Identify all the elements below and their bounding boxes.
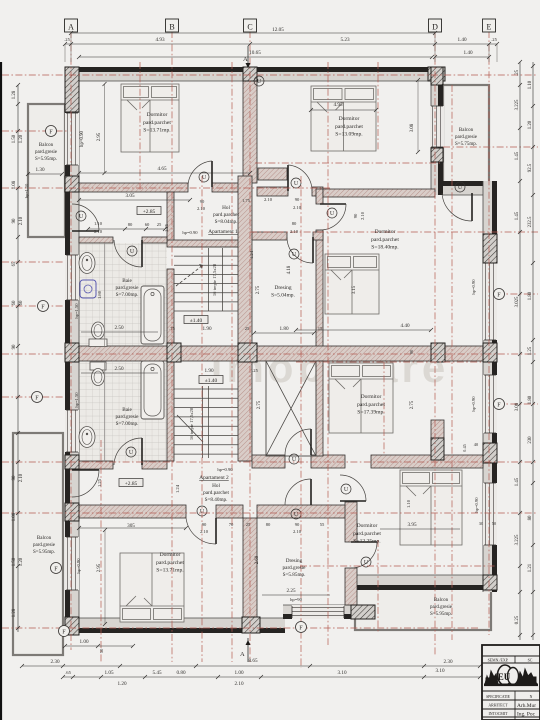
axis horizontal y566: [300, 565, 497, 567]
axis horizontal y294: [497, 293, 538, 295]
column right-upper top: [431, 67, 443, 85]
svg-text:F: F: [497, 291, 501, 298]
svg-text:80: 80: [292, 221, 297, 226]
svg-text:5.45: 5.45: [152, 670, 161, 676]
svg-text:S=5.95mp.: S=5.95mp.: [33, 550, 55, 555]
level box +2.85 apt1: [137, 207, 161, 215]
dim 4.95 bedroom2: [311, 109, 376, 111]
stair right wall: [238, 176, 252, 343]
level box +1.40 stairs upper: [184, 316, 208, 324]
axis horizontal y462: [2, 461, 538, 463]
stairwell top wall: [167, 240, 239, 247]
svg-text:±1.40: ±1.40: [205, 378, 218, 384]
dressing top wall: [251, 232, 287, 240]
svg-text:4.40: 4.40: [400, 323, 409, 329]
window left wall bath1: [65, 255, 79, 300]
column stairright mid: [238, 343, 257, 362]
column right y443: [483, 443, 497, 463]
svg-text:90: 90: [202, 522, 207, 527]
hol1 top wall right segment: [257, 187, 288, 196]
svg-text:hp=0.90: hp=0.90: [182, 230, 198, 235]
dim col right inner: [519, 62, 521, 640]
svg-text:90: 90: [295, 522, 300, 527]
door circle top wall: [254, 76, 264, 86]
axis horizontal y75: [2, 74, 538, 76]
window left wall bedroom1: [65, 113, 79, 165]
svg-text:S=5.85mp.: S=5.85mp.: [283, 572, 306, 578]
window right wall lower: [483, 483, 497, 545]
svg-text:3.10: 3.10: [435, 668, 444, 674]
svg-text:U: U: [364, 560, 369, 566]
column left y176: [65, 176, 79, 192]
svg-text:2.10: 2.10: [264, 197, 273, 202]
svg-text:pard.gresie: pard.gresie: [116, 285, 140, 291]
svg-text:F: F: [54, 565, 58, 572]
svg-text:Apartament 1: Apartament 1: [208, 229, 238, 235]
svg-text:Dormitor: Dormitor: [147, 112, 168, 118]
grid circle F: [296, 622, 307, 633]
svg-text:hp=1.50: hp=1.50: [74, 392, 79, 408]
hol2 top wall segment c: [371, 455, 483, 468]
svg-text:Dormitor: Dormitor: [160, 552, 181, 558]
dim 2.50 bath1: [81, 331, 158, 333]
door circle U9: [197, 506, 207, 516]
svg-text:Dormitor: Dormitor: [339, 116, 360, 122]
svg-text:F: F: [41, 303, 45, 310]
svg-text:B: B: [169, 23, 174, 32]
svg-text:1.21: 1.21: [528, 563, 533, 572]
axis horizontal y362: [296, 361, 483, 363]
bath2 fixture strip line: [104, 362, 106, 461]
svg-text:Baie: Baie: [122, 407, 132, 413]
exterior right wall upper x431: [431, 67, 443, 195]
axis horizontal y147: [443, 146, 538, 148]
svg-text:2.30: 2.30: [443, 659, 452, 665]
svg-text:U: U: [257, 79, 262, 85]
door circle U14: [361, 557, 371, 567]
svg-text:E: E: [487, 23, 492, 32]
svg-text:2.10: 2.10: [360, 211, 365, 220]
column bottom x351: [351, 605, 375, 619]
svg-text:hp=0.90: hp=0.90: [217, 467, 233, 472]
svg-text:1.20: 1.20: [528, 120, 533, 129]
axis horizontal y306: [2, 305, 65, 307]
svg-text:pard.parchet: pard.parchet: [353, 531, 381, 537]
stair left wall lower: [167, 361, 174, 461]
dim row top 2: [65, 43, 497, 45]
axis horizontal y397: [2, 396, 65, 398]
svg-text:S=12.25mp.: S=12.25mp.: [353, 539, 381, 545]
svg-text:0.25: 0.25: [515, 615, 520, 624]
svg-text:U: U: [79, 214, 84, 220]
svg-text:S=7.00mp.: S=7.00mp.: [116, 421, 139, 427]
door bedroom5: [340, 500, 366, 502]
svg-text:1.30: 1.30: [35, 167, 44, 173]
svg-text:1.20: 1.20: [19, 134, 24, 143]
axis horizontal y404: [497, 403, 538, 405]
svg-text:A: A: [240, 651, 245, 658]
door balcony bottom-left: [72, 469, 99, 471]
hol2 bottom wall segment b: [216, 505, 243, 518]
svg-text:Hol: Hol: [222, 205, 230, 211]
svg-text:2.50: 2.50: [114, 366, 123, 372]
hol2 top wall segment b: [311, 455, 345, 468]
svg-text:2.75: 2.75: [257, 400, 262, 409]
svg-text:F: F: [49, 128, 53, 135]
dim 1.80 dressing: [254, 332, 314, 334]
svg-text:.25: .25: [252, 368, 258, 373]
door dorm3: [320, 203, 346, 205]
svg-text:2.75: 2.75: [410, 400, 415, 409]
svg-text:2.25: 2.25: [286, 588, 295, 594]
svg-text:1.25: 1.25: [97, 478, 102, 487]
svg-text:90: 90: [12, 218, 17, 223]
svg-text:25: 25: [245, 326, 250, 331]
dorm3 left wall x316 lower / dressing right wall: [316, 230, 323, 361]
door dressing: [312, 237, 314, 263]
door dressing2: [310, 479, 312, 505]
svg-text:65: 65: [12, 261, 17, 266]
axis E vertical: [488, 31, 490, 635]
svg-text:N: N: [530, 695, 533, 699]
svg-text:S=5.75mp.: S=5.75mp.: [455, 142, 477, 147]
door bath2: [141, 438, 143, 465]
svg-text:1.28: 1.28: [12, 90, 17, 99]
svg-text:pard.parchet: pard.parchet: [143, 120, 171, 126]
svg-text:EU: EU: [498, 672, 511, 682]
axis horizontal y188: [2, 187, 330, 189]
column right y343: [483, 343, 497, 362]
svg-text:Dresing: Dresing: [274, 285, 291, 291]
door circle U6: [76, 211, 86, 221]
svg-text:hp=0.90: hp=0.90: [474, 497, 479, 513]
level box +1.40 stairs lower: [199, 376, 223, 384]
column stairleft mid: [167, 343, 181, 362]
door circle U5: [455, 182, 465, 192]
exterior top wall: [65, 67, 445, 81]
svg-text:8.65: 8.65: [248, 658, 257, 664]
axis vertical x101: [100, 440, 102, 662]
axis vertical x378: [377, 62, 379, 150]
svg-text:1.08: 1.08: [12, 512, 17, 521]
svg-text:pard.gresie: pard.gresie: [35, 150, 58, 155]
svg-text:2.10: 2.10: [197, 206, 206, 211]
dressing2 right wall upper: [345, 502, 357, 542]
svg-text:S=5.04mp.: S=5.04mp.: [271, 292, 295, 298]
svg-text:1.50: 1.50: [12, 557, 17, 566]
hol nook wall: [258, 168, 287, 180]
svg-text:Arh.Mur: Arh.Mur: [517, 703, 536, 709]
dorm3 left wall x316 upper: [316, 189, 323, 204]
svg-text:2.95: 2.95: [97, 132, 102, 141]
axis vertical x202: [201, 176, 203, 662]
frame edge: [0, 62, 2, 720]
svg-text:80: 80: [266, 522, 271, 527]
bed 6 bedroom bottom-left: [120, 553, 184, 622]
svg-text:3.05: 3.05: [125, 193, 134, 199]
svg-text:1.00: 1.00: [79, 639, 88, 645]
door circle U4: [327, 208, 337, 218]
dim 4.40 dorm4: [296, 329, 431, 331]
svg-text:U: U: [330, 211, 335, 217]
title block: [482, 645, 540, 720]
svg-text:+2.85: +2.85: [125, 481, 138, 487]
svg-text:1.80: 1.80: [279, 326, 288, 332]
svg-text:1.00: 1.00: [234, 670, 243, 676]
axis D vertical: [434, 31, 436, 655]
dim row top 3: [79, 56, 432, 58]
hol2 top wall segment a: [252, 455, 285, 468]
svg-text:Hol: Hol: [212, 483, 220, 489]
svg-text:hp=90: hp=90: [290, 597, 302, 602]
svg-text:2.60: 2.60: [255, 555, 260, 564]
svg-text:Dresing: Dresing: [286, 558, 303, 564]
door balcony top-left: [72, 230, 99, 232]
svg-text:1.25: 1.25: [164, 223, 169, 232]
dim 2.50 bath2: [81, 372, 158, 374]
column x432 y438: [431, 438, 444, 460]
grid circle F: [59, 626, 70, 637]
door bedroom6: [215, 518, 217, 544]
toilet 2: [90, 362, 106, 370]
svg-text:25: 25: [246, 522, 251, 527]
bed 5 bedroom S12.25: [400, 470, 462, 545]
svg-text:80: 80: [128, 222, 133, 227]
svg-text:SC: SC: [528, 659, 533, 663]
svg-text:Balcon: Balcon: [459, 128, 474, 133]
svg-text:1.28: 1.28: [12, 608, 17, 617]
svg-text:S=8.40mp.: S=8.40mp.: [205, 497, 228, 503]
bed 2 bedroom top-middle: [311, 86, 376, 151]
exterior right wall x483: [483, 181, 497, 592]
door circle U2: [291, 178, 301, 188]
svg-text:hp=1.10: hp=1.10: [24, 183, 29, 198]
door circle U13: [341, 484, 351, 494]
balcony top-left walls: [28, 104, 65, 237]
svg-text:1.10: 1.10: [406, 499, 411, 508]
wall x431 above hol2: [431, 420, 444, 440]
svg-text:0.45: 0.45: [462, 443, 467, 451]
svg-text:U: U: [294, 181, 299, 187]
stair left wall mid: [167, 269, 174, 343]
svg-text:92.5: 92.5: [528, 163, 533, 172]
grid bubble A: [65, 19, 78, 32]
svg-text:F: F: [62, 628, 66, 635]
svg-text:F: F: [497, 401, 501, 408]
dim balcony 1.30: [28, 173, 62, 175]
axis horizontal y131: [2, 130, 68, 132]
axis vertical x301: [300, 176, 302, 668]
svg-text:S=18.40mp.: S=18.40mp.: [371, 245, 399, 251]
svg-text:+2.85: +2.85: [143, 209, 156, 215]
bath1 fixture strip line: [104, 243, 106, 346]
svg-text:3.225: 3.225: [515, 534, 520, 545]
axis horizontal y262: [2, 261, 65, 263]
svg-text:2.10: 2.10: [290, 229, 299, 234]
grid bubble C: [244, 19, 257, 32]
bathroom 2 tiled floor: [79, 362, 167, 462]
exterior bottom wall right wing: [351, 575, 497, 590]
grid circle F: [38, 301, 49, 312]
svg-text:5.23: 5.23: [340, 37, 349, 43]
svg-text:2.10: 2.10: [19, 216, 24, 225]
svg-text:0.80: 0.80: [176, 670, 185, 676]
svg-text:Dormitor: Dormitor: [375, 229, 396, 235]
svg-text:90: 90: [295, 197, 300, 202]
axis vertical x140: [139, 62, 141, 192]
title block logo: [484, 665, 538, 686]
svg-text:1.80: 1.80: [528, 291, 533, 300]
bed 4 bedroom S17.39: [329, 363, 393, 433]
svg-text:hp=0.90: hp=0.90: [471, 279, 476, 295]
axis horizontal y232: [250, 231, 538, 233]
dressing2 right wall lower: [345, 568, 357, 605]
section marker A bottom: [247, 638, 249, 662]
column C top: [243, 67, 257, 81]
svg-text:1.80: 1.80: [528, 395, 533, 404]
window left wall bedroom6: [65, 537, 79, 590]
svg-text:1.75: 1.75: [242, 198, 251, 203]
grid circle F: [46, 126, 57, 137]
boiler bath1: [80, 280, 96, 298]
axis horizontal y163: [255, 162, 440, 164]
wall between bedrooms 1-2 (axis C): [243, 81, 257, 183]
corner column top-left: [65, 67, 79, 112]
door circle U3: [289, 249, 299, 259]
svg-text:pard.parchet: pard.parchet: [335, 124, 363, 130]
svg-text:90: 90: [12, 475, 17, 480]
balcony bottom-right walls: [355, 588, 491, 630]
svg-text:2.10: 2.10: [19, 473, 24, 482]
door circle U10: [291, 509, 301, 519]
svg-text:2.10: 2.10: [200, 529, 209, 534]
axis A vertical: [70, 31, 72, 650]
svg-text:U: U: [202, 175, 207, 181]
apartment separation wall: [79, 346, 431, 361]
column left y343: [65, 343, 79, 362]
svg-text:1.24: 1.24: [249, 250, 254, 259]
svg-text:SEMN./EXP.: SEMN./EXP.: [488, 659, 509, 663]
shaft X-box: [266, 361, 316, 456]
hol2 bottom wall segment a: [79, 505, 186, 518]
axis vertical x232: [231, 62, 233, 662]
bath1 top wall left: [79, 237, 113, 243]
svg-text:.65: .65: [65, 670, 71, 675]
svg-text:4.95: 4.95: [333, 102, 342, 108]
svg-text:25: 25: [157, 222, 162, 227]
svg-text:S=8.04mp.: S=8.04mp.: [215, 219, 238, 225]
svg-text:INTOCMIT: INTOCMIT: [489, 712, 509, 716]
corner column bottom-right: [483, 575, 497, 590]
svg-text:3.225: 3.225: [515, 99, 520, 110]
toilet 1: [92, 322, 105, 339]
dressing2 top wall: [257, 505, 351, 518]
svg-text:90: 90: [200, 199, 205, 204]
door circle U1: [199, 172, 209, 182]
svg-text:90: 90: [12, 344, 17, 349]
dim 3.95 bed5: [380, 528, 460, 530]
svg-text:pard.parchet: pard.parchet: [203, 490, 229, 496]
svg-text:60: 60: [19, 300, 24, 305]
svg-text:1.10: 1.10: [94, 221, 103, 226]
svg-text:F: F: [35, 394, 39, 401]
svg-text:A: A: [68, 23, 74, 32]
dim 4.65 bedroom1: [79, 172, 250, 174]
svg-text:pard.parchet: pard.parchet: [357, 402, 385, 408]
level box +2.85 apt2: [119, 479, 143, 487]
svg-text:Dormitor: Dormitor: [357, 523, 378, 529]
svg-text:1.40: 1.40: [457, 37, 466, 43]
svg-text:pard.gresie: pard.gresie: [283, 565, 307, 571]
svg-text:U: U: [344, 487, 349, 493]
dim row bottom 1.00: [65, 645, 133, 647]
svg-text:pard.parchet: pard.parchet: [213, 212, 239, 218]
bed 3 bedroom right S18.40: [325, 254, 379, 314]
svg-text:U: U: [129, 450, 134, 456]
svg-text:S=13.71mp.: S=13.71mp.: [156, 568, 184, 574]
bathroom 1 tiled floor: [79, 243, 167, 346]
svg-text:pard.gresie: pard.gresie: [116, 414, 140, 420]
dim 3.05 hol1: [79, 199, 190, 201]
grid circle F: [51, 563, 62, 574]
column right y234: [483, 234, 497, 263]
svg-text:3.15: 3.15: [352, 285, 357, 294]
window right wall bed4: [483, 375, 497, 433]
svg-text:2.95: 2.95: [97, 563, 102, 572]
balcony bottom-left walls: [13, 433, 63, 655]
svg-text:S=17.39mp.: S=17.39mp.: [357, 410, 385, 416]
svg-text:90: 90: [353, 213, 358, 218]
svg-text:4.93: 4.93: [155, 37, 164, 43]
svg-text:1.40: 1.40: [463, 50, 472, 56]
axis B vertical: [171, 31, 173, 662]
svg-text:1.08: 1.08: [12, 180, 17, 189]
svg-text:50: 50: [99, 648, 104, 653]
svg-text:230: 230: [528, 436, 533, 444]
svg-text:4.65: 4.65: [157, 166, 166, 172]
svg-text:U: U: [458, 185, 463, 191]
svg-text:3.08: 3.08: [515, 402, 520, 411]
column D mid wall: [431, 343, 445, 362]
exterior step wall y181: [443, 181, 497, 195]
grid bubble B: [166, 19, 179, 32]
svg-text:2.10: 2.10: [94, 229, 103, 234]
svg-text:70: 70: [229, 522, 234, 527]
window right wall upper: [430, 106, 444, 147]
hol1 top wall segment a: [79, 183, 188, 192]
svg-text:2.30: 2.30: [50, 659, 59, 665]
section marker A top: [247, 46, 249, 66]
svg-text:S=5.95mp.: S=5.95mp.: [430, 612, 452, 617]
svg-text:Balcon: Balcon: [39, 143, 54, 148]
svg-text:Dormitor: Dormitor: [361, 394, 382, 400]
dim row bottom 5.45/8.65: [22, 665, 480, 667]
svg-text:55: 55: [320, 522, 325, 527]
door circle U7: [127, 246, 137, 256]
svg-text:Balcon: Balcon: [37, 536, 52, 541]
svg-text:1.24: 1.24: [175, 484, 180, 493]
svg-text:1.45: 1.45: [515, 211, 520, 220]
svg-text:60: 60: [12, 300, 17, 305]
svg-text:Apartament 2: Apartament 2: [199, 475, 229, 481]
dim 2.25 dressing2: [262, 594, 330, 596]
hol1 top wall right stub: [312, 187, 323, 196]
dim row bottom detail: [63, 676, 480, 678]
axis horizontal y628: [2, 627, 478, 629]
svg-text:10.65: 10.65: [249, 50, 261, 56]
svg-text:hp=0.90: hp=0.90: [76, 558, 81, 574]
column left y455: [65, 455, 79, 469]
